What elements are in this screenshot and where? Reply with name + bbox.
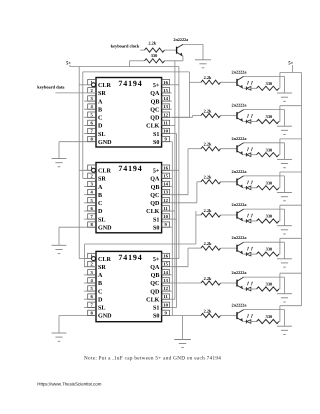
svg-text:Https://www.ThesisScientist.co: Https://www.ThesisScientist.com	[37, 382, 101, 387]
resistor R1 2.2k (clock base)	[145, 41, 165, 53]
resistor R16 330 row 7	[257, 282, 279, 292]
svg-text:330: 330	[266, 214, 272, 219]
pin 11 (CLK) of U2	[146, 206, 172, 216]
LED D6 row 6	[243, 247, 256, 256]
svg-text:330: 330	[266, 114, 272, 119]
ground (row 6 collector)	[277, 258, 292, 260]
wire 74194 output to row 1 resistor	[189, 81, 201, 83]
wire net 5+ right rail to pin16s	[172, 67, 179, 259]
LED D7 row 7	[243, 282, 256, 291]
svg-text:11: 11	[163, 294, 168, 299]
power 5+ top left	[66, 60, 71, 66]
pin 3 (A) of U3	[84, 270, 103, 280]
wire row 5 to 5+ rail	[279, 205, 302, 221]
ground (row 3 collector)	[277, 158, 292, 160]
pin 5 (C) of U2	[84, 198, 102, 208]
pin 16 (5+) of U3	[153, 253, 172, 262]
wire Q5 collector to ground	[244, 176, 285, 192]
wire R11 to Q6 base	[221, 214, 238, 216]
wire 74194 output to row 8 resistor	[172, 315, 201, 317]
svg-text:2.2k: 2.2k	[204, 208, 212, 213]
svg-text:12: 12	[163, 286, 168, 291]
svg-text:15: 15	[163, 173, 168, 178]
IC U1 74194 shift register	[96, 78, 162, 148]
resistor R13 2.2k row 6	[201, 241, 221, 250]
ground (row 4 collector)	[277, 192, 292, 194]
svg-text:2n2222a: 2n2222a	[232, 270, 248, 275]
pin 12 (QD) of U2	[150, 198, 172, 208]
resistor R2 330 (clock emitter)	[145, 53, 165, 63]
svg-text:330: 330	[266, 180, 272, 185]
pin 8 (GND) of U2	[59, 222, 112, 232]
pin 1 (CLR) of U1	[88, 80, 112, 90]
wire R13 to Q7 base	[221, 247, 238, 249]
transistor Q8 2n2222a row 7	[232, 270, 248, 289]
ground (row 8 collector)	[277, 325, 292, 327]
pin 16 (5+) of U1	[153, 80, 172, 90]
wire S0 net down to ground	[182, 316, 184, 340]
svg-text:QC: QC	[150, 192, 159, 199]
svg-text:5+: 5+	[153, 257, 160, 263]
pin 5 (C) of U3	[84, 286, 102, 296]
wire Q4 collector to ground	[244, 143, 285, 159]
svg-text:keyboard clock: keyboard clock	[111, 43, 140, 48]
svg-text:5+: 5+	[153, 169, 160, 175]
pin 13 (QC) of U1	[150, 104, 172, 114]
pin 11 (CLK) of U1	[146, 120, 172, 130]
svg-text:13: 13	[163, 190, 168, 195]
svg-text:D: D	[98, 297, 103, 303]
svg-text:QD: QD	[150, 115, 160, 122]
pin 14 (QB) of U2	[151, 181, 172, 191]
svg-text:330: 330	[266, 314, 272, 319]
pin 16 (5+) of U2	[153, 165, 172, 175]
wire Q6 collector to ground	[244, 209, 285, 225]
pin 14 (QB) of U3	[151, 270, 172, 280]
ground (clock collector)	[195, 59, 211, 61]
LED D8 row 8	[243, 314, 256, 323]
pin 3 (A) of U1	[84, 96, 103, 106]
svg-text:74194: 74194	[118, 253, 142, 262]
svg-text:CLK: CLK	[146, 123, 159, 130]
wire 74194 output to row 7 resistor	[172, 282, 201, 284]
wire R17 to Q9 base	[221, 315, 238, 317]
resistor R15 2.2k row 7	[201, 276, 221, 285]
svg-text:16: 16	[163, 80, 168, 85]
transistor Q9 2n2222a row 8	[232, 303, 248, 322]
svg-text:2.2k: 2.2k	[204, 142, 212, 147]
svg-text:QA: QA	[150, 264, 160, 271]
wire net QD U2 to SR U3 cascade	[85, 211, 196, 267]
resistor R3 2.2k row 1	[201, 75, 221, 84]
ground (bottom of control bus)	[174, 339, 191, 341]
svg-text:2.2k: 2.2k	[204, 175, 212, 180]
pin 10 (S1) of U3	[153, 302, 172, 312]
svg-text:2n2222a: 2n2222a	[232, 136, 248, 141]
svg-text:B: B	[98, 107, 102, 113]
ground (row 7 collector)	[277, 293, 292, 295]
wire 74194 output to row 6 resistor	[172, 248, 201, 267]
wire R3 to Q2 base	[221, 81, 238, 83]
resistor R10 330 row 4	[257, 180, 279, 190]
svg-text:14: 14	[163, 270, 168, 275]
wire GND pin U1	[58, 142, 60, 159]
svg-text:SL: SL	[98, 131, 105, 138]
pin 6 (D) of U3	[84, 294, 103, 304]
pin 10 (S1) of U2	[153, 214, 172, 224]
wire 74194 output to row 2 resistor	[172, 116, 201, 118]
svg-text:10: 10	[163, 214, 168, 219]
wire Q3 collector to ground	[244, 110, 285, 126]
ground (U1 GND pin)	[52, 158, 67, 160]
pin 6 (D) of U2	[84, 206, 103, 216]
transistor Q3 2n2222a row 2	[232, 103, 248, 122]
resistor R14 330 row 6	[257, 247, 279, 257]
LED D1 row 1	[243, 81, 256, 90]
svg-text:S1: S1	[153, 131, 159, 138]
wire R7 to Q4 base	[221, 148, 238, 150]
pin 7 (SL) of U1	[84, 128, 105, 138]
svg-text:16: 16	[163, 254, 168, 259]
svg-text:13: 13	[163, 278, 168, 283]
resistor R7 2.2k row 3	[201, 142, 221, 151]
pin 8 (GND) of U3	[59, 310, 112, 320]
svg-text:5+: 5+	[153, 83, 160, 89]
svg-text:15: 15	[163, 88, 168, 93]
pin 10 (S1) of U1	[153, 128, 172, 138]
wire R15 to Q8 base	[221, 282, 238, 284]
svg-text:S0: S0	[153, 224, 159, 231]
resistor R5 2.2k row 2	[201, 108, 221, 117]
svg-text:QB: QB	[151, 272, 160, 279]
svg-text:SL: SL	[98, 305, 105, 312]
pin 2 (SR) of U1	[88, 88, 107, 98]
wire net 5+ horizontal top	[70, 66, 179, 68]
wire row 3 to 5+ rail	[279, 139, 302, 155]
svg-text:5+: 5+	[66, 60, 71, 66]
wire right 5+ rail	[301, 73, 303, 306]
wire Q2 collector to ground	[244, 76, 285, 92]
svg-text:330: 330	[266, 247, 272, 252]
svg-text:C: C	[98, 288, 102, 295]
svg-text:S0: S0	[153, 313, 159, 320]
pin 4 (B) of U3	[84, 278, 102, 288]
pin 14 (QB) of U1	[151, 96, 172, 106]
wire net QD U1 to SR U2 cascade	[83, 72, 190, 178]
pin 8 (GND) of U1	[59, 136, 112, 146]
svg-text:A: A	[98, 98, 103, 105]
svg-text:330: 330	[266, 81, 272, 86]
wire keyboard data to U1 SR pin2	[55, 92, 96, 94]
wire 74194 output to row 5 resistor	[196, 214, 201, 216]
pin 12 (QD) of U3	[150, 286, 172, 296]
wire 74194 output to row 3 resistor	[172, 149, 201, 195]
transistor Q2 2n2222a row 1	[232, 69, 248, 88]
pin 5 (C) of U1	[84, 112, 102, 122]
svg-text:CLR: CLR	[98, 256, 111, 263]
svg-text:C: C	[98, 115, 102, 122]
svg-text:74194: 74194	[118, 79, 142, 88]
wire row 8 to 5+ rail	[279, 306, 302, 322]
wire row 1 to 5+ rail	[279, 73, 302, 89]
pin 13 (QC) of U3	[150, 278, 172, 288]
pin 7 (SL) of U3	[84, 302, 105, 312]
ground (U3 GND pin)	[52, 332, 67, 334]
svg-text:2n2222a: 2n2222a	[232, 103, 248, 108]
svg-text:QA: QA	[150, 176, 160, 183]
svg-text:330: 330	[266, 147, 272, 152]
svg-text:14: 14	[163, 96, 168, 101]
svg-text:330: 330	[266, 282, 272, 287]
svg-text:2n2222a: 2n2222a	[232, 235, 248, 240]
ground (row 1 collector)	[277, 92, 292, 94]
svg-text:16: 16	[163, 165, 168, 170]
svg-text:CLK: CLK	[146, 208, 159, 215]
pin 2 (SR) of U3	[84, 261, 106, 271]
svg-text:13: 13	[163, 104, 168, 109]
LED D5 row 5	[243, 214, 256, 223]
svg-text:A: A	[98, 272, 103, 279]
svg-text:GND: GND	[98, 139, 112, 146]
svg-text:QC: QC	[150, 280, 159, 287]
svg-text:A: A	[98, 184, 103, 191]
transistor Q4 2n2222a row 3	[232, 136, 248, 155]
svg-text:CLR: CLR	[98, 82, 111, 89]
wire 74194 output to row 4 resistor	[172, 182, 201, 203]
svg-text:2n2222a: 2n2222a	[232, 169, 248, 174]
wire GND pin U3	[58, 316, 60, 334]
pin 9 (S0) of U3	[153, 310, 172, 320]
svg-text:2.2k: 2.2k	[148, 41, 156, 46]
wire net CLK bus	[172, 61, 175, 299]
wire R5 to Q3 base	[221, 115, 238, 117]
svg-text:SR: SR	[98, 90, 106, 97]
pin 15 (QA) of U2	[150, 173, 172, 183]
IC U3 74194 shift register	[96, 251, 162, 321]
pin 6 (D) of U1	[84, 120, 103, 130]
svg-text:330: 330	[151, 53, 157, 58]
svg-text:2n2222a: 2n2222a	[173, 37, 189, 42]
svg-text:QC: QC	[150, 106, 159, 113]
svg-text:74194: 74194	[118, 164, 142, 173]
resistor R18 330 row 8	[257, 314, 279, 324]
svg-text:GND: GND	[98, 224, 112, 231]
wire net S0 bus	[171, 142, 174, 316]
wire net CLR left rail	[79, 67, 91, 259]
svg-text:CLR: CLR	[98, 168, 111, 175]
pin 2 (SR) of U2	[84, 173, 106, 183]
pin 9 (S0) of U1	[153, 136, 172, 146]
pin 4 (B) of U1	[84, 104, 102, 114]
wire R9 to Q5 base	[221, 181, 238, 183]
svg-text:B: B	[98, 193, 102, 199]
ground (row 2 collector)	[277, 125, 292, 127]
svg-text:2n2222a: 2n2222a	[232, 303, 248, 308]
pin 11 (CLK) of U3	[146, 294, 172, 304]
resistor R6 330 row 2	[257, 114, 279, 124]
wire net S1 bus	[172, 134, 177, 308]
transistor Q6 2n2222a row 5	[232, 202, 248, 221]
resistor R4 330 row 1	[257, 81, 279, 91]
wire R2 left to 5+ line	[129, 61, 144, 67]
svg-text:QD: QD	[150, 200, 160, 207]
resistor R8 330 row 3	[257, 147, 279, 157]
resistor R12 330 row 5	[257, 214, 279, 224]
svg-text:10: 10	[163, 129, 168, 134]
svg-text:S0: S0	[153, 139, 159, 146]
wire row 6 to 5+ rail	[279, 238, 302, 254]
svg-text:2.2k: 2.2k	[204, 108, 212, 113]
svg-text:10: 10	[163, 302, 168, 307]
wire row 4 to 5+ rail	[279, 172, 302, 188]
wire row 7 to 5+ rail	[279, 273, 302, 289]
svg-text:QB: QB	[151, 184, 160, 191]
svg-text:2.2k: 2.2k	[204, 276, 212, 281]
pin 15 (QA) of U3	[150, 261, 172, 271]
svg-text:S1: S1	[153, 305, 159, 312]
svg-text:2.2k: 2.2k	[204, 75, 212, 80]
transistor Q7 2n2222a row 6	[232, 235, 248, 254]
svg-text:12: 12	[163, 112, 168, 117]
svg-text:QD: QD	[150, 288, 160, 295]
svg-text:GND: GND	[98, 313, 112, 320]
LED D2 row 2	[243, 114, 256, 123]
svg-text:2n2222a: 2n2222a	[232, 69, 248, 74]
svg-text:B: B	[98, 281, 102, 287]
resistor R9 2.2k row 4	[201, 175, 221, 184]
pin 1 (CLR) of U3	[84, 253, 111, 262]
transistor Q5 2n2222a row 4	[232, 169, 248, 188]
svg-text:11: 11	[163, 206, 168, 211]
transistor Q1 2n2222a (clock driver)	[173, 37, 189, 56]
svg-text:11: 11	[163, 121, 168, 126]
pin 7 (SL) of U2	[84, 214, 105, 224]
svg-text:C: C	[98, 200, 102, 207]
svg-text:keyboard data: keyboard data	[37, 85, 65, 90]
svg-text:2.2k: 2.2k	[204, 241, 212, 246]
resistor R17 2.2k row 8	[201, 308, 221, 317]
svg-text:D: D	[98, 209, 103, 215]
IC U2 74194 shift register	[96, 163, 162, 233]
svg-text:SR: SR	[98, 264, 106, 271]
svg-text:Note: Put a .1uF cap between 5: Note: Put a .1uF cap between 5+ and GND …	[84, 355, 221, 361]
wire row 2 to 5+ rail	[279, 106, 302, 122]
svg-text:QB: QB	[151, 98, 160, 105]
wire Q1 emitter down to 330 line	[165, 56, 184, 61]
wire Q8 collector to ground	[244, 277, 285, 293]
wire Q1 collector to ground	[183, 44, 203, 59]
svg-text:D: D	[98, 124, 103, 130]
LED D4 row 4	[243, 181, 256, 190]
wire Q9 collector to ground	[244, 310, 285, 326]
wire keyboard clock to R1	[140, 49, 144, 51]
svg-text:CLK: CLK	[146, 296, 159, 303]
pin 3 (A) of U2	[84, 181, 103, 191]
pin 12 (QD) of U1	[150, 112, 172, 122]
wire GND pin U2	[58, 227, 60, 245]
svg-text:SR: SR	[98, 176, 106, 183]
wire Q7 collector to ground	[244, 242, 285, 258]
ground (row 5 collector)	[277, 225, 292, 227]
svg-text:S1: S1	[153, 216, 159, 223]
svg-text:14: 14	[163, 182, 168, 187]
power 5+ top right	[288, 60, 293, 72]
pin 15 (QA) of U1	[150, 88, 172, 98]
svg-text:2n2222a: 2n2222a	[232, 202, 248, 207]
pin 9 (S0) of U2	[153, 222, 172, 232]
svg-text:QA: QA	[150, 90, 160, 97]
LED D3 row 3	[243, 148, 256, 157]
wire R1 to Q1 base	[165, 49, 177, 51]
svg-text:2.2k: 2.2k	[204, 308, 212, 313]
resistor R11 2.2k row 5	[201, 208, 221, 217]
pin 1 (CLR) of U2	[84, 165, 111, 175]
ground (U2 GND pin)	[52, 244, 67, 246]
svg-text:15: 15	[163, 262, 168, 267]
pin 13 (QC) of U2	[150, 189, 172, 199]
svg-text:12: 12	[163, 198, 168, 203]
pin 4 (B) of U2	[84, 189, 102, 199]
svg-text:SL: SL	[98, 216, 105, 223]
